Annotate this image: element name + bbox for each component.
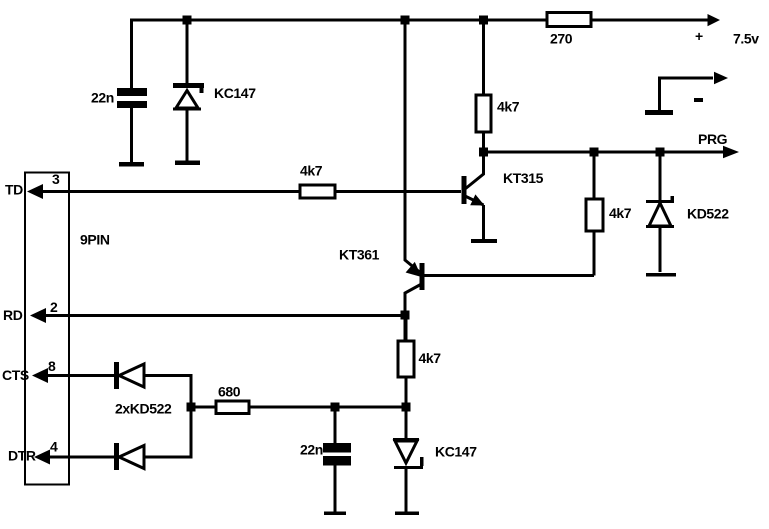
wire: KT361 base line to 4k7 bbox=[424, 274, 594, 277]
svg-text:CTS: CTS bbox=[2, 367, 29, 383]
svg-text:270: 270 bbox=[550, 31, 573, 47]
capacitor C top-left 22n : plates bbox=[91, 88, 147, 108]
junction: top rail / KT361 emitter line bbox=[401, 16, 410, 25]
svg-text:KT315: KT315 bbox=[503, 170, 544, 186]
wire: vertical to 4k7 pulldown bbox=[405, 315, 408, 341]
svg-text:22n: 22n bbox=[300, 442, 323, 458]
wire: CTS line to diode bbox=[44, 374, 114, 377]
wire: vertical from rail to 4k7 R-collector bbox=[482, 20, 485, 95]
wire: TD line right segment bbox=[335, 190, 461, 193]
svg-text:9PIN: 9PIN bbox=[80, 232, 110, 248]
wire: KC147 bottom lead bbox=[405, 469, 408, 512]
svg-text:4: 4 bbox=[50, 439, 58, 455]
junction: 680 line / 22n bottom bbox=[331, 403, 340, 412]
svg-text:4k7: 4k7 bbox=[609, 205, 632, 221]
svg-text:KC147: KC147 bbox=[214, 85, 256, 101]
zener diode KC147 bottom bbox=[393, 438, 477, 469]
ground: KD522 ground bar bbox=[646, 273, 676, 277]
wire: top supply rail right segment to +7.5v bbox=[591, 19, 710, 22]
wire: 4k7 base-resistor top lead bbox=[593, 152, 596, 199]
svg-text:DTR: DTR bbox=[8, 448, 36, 464]
junction: PRG rail / 4k7 base resistor bbox=[590, 148, 599, 157]
diode KD522 on CTS (left pointing) bbox=[114, 362, 172, 417]
pin 4 DTR arrow bbox=[8, 439, 58, 465]
svg-text:4k7: 4k7 bbox=[497, 99, 520, 115]
wire: 22n bottom lead bbox=[130, 108, 133, 162]
svg-text:KC147: KC147 bbox=[435, 444, 477, 460]
zener diode KC147 top-left bbox=[173, 83, 256, 111]
wire: CTS diode to corner and down bbox=[144, 376, 191, 408]
node PRG output arrow bbox=[698, 131, 739, 158]
junction: CTS/DTR vertical / 680 bbox=[187, 403, 196, 412]
ground: 22n top-left ground bar bbox=[119, 162, 144, 167]
wire: PRG rail bbox=[484, 151, 724, 154]
pin 8 CTS arrow bbox=[2, 358, 56, 383]
svg-text:8: 8 bbox=[48, 358, 56, 374]
wire: 4k7 base-resistor bottom lead bbox=[593, 231, 596, 276]
diode KD522 bbox=[646, 196, 729, 228]
svg-text:PRG: PRG bbox=[698, 131, 728, 147]
wire: KT361 emitter vertical from top rail bbox=[405, 20, 420, 272]
resistor 4k7 (TD series, horizontal) bbox=[300, 163, 335, 199]
ground: KT315 emitter ground bar bbox=[471, 239, 497, 243]
capacitor C top-left 22n : top lead bbox=[130, 20, 133, 88]
wire: RD line from connector to KT361 collector bbox=[39, 314, 405, 317]
resistor 680 (horizontal) bbox=[216, 384, 249, 414]
capacitor 22n bottom : plates bbox=[300, 442, 351, 466]
connector 9PIN box bbox=[25, 173, 110, 485]
ground: 22n bottom ground bar bbox=[324, 512, 346, 516]
svg-text:2xKD522: 2xKD522 bbox=[115, 401, 172, 417]
wire: DTR diode to corner and up bbox=[144, 376, 191, 458]
junction: PRG rail / KT315 collector bbox=[479, 148, 488, 157]
resistor 4k7 (collector load, vertical) bbox=[476, 95, 520, 132]
svg-text:680: 680 bbox=[218, 384, 241, 400]
wire: 4k7 bottom lead to PRG rail bbox=[482, 132, 485, 152]
junction: top rail / KC147 bbox=[183, 16, 192, 25]
wire: DTR line to diode bbox=[46, 456, 114, 459]
svg-text:7.5v: 7.5v bbox=[733, 31, 759, 47]
resistor 4k7 (KT361 base, vertical) bbox=[586, 199, 632, 231]
ground: KC147 bottom ground bar bbox=[395, 512, 419, 516]
wire: KC147 bottom lead bbox=[186, 110, 189, 161]
svg-text:4k7: 4k7 bbox=[300, 163, 323, 179]
wire: KC147 top lead bbox=[186, 20, 189, 83]
resistor 4k7 (pulldown, vertical) bbox=[398, 341, 441, 377]
ground: KC147 top-left ground bar bbox=[175, 161, 200, 166]
pin 2 RD arrow bbox=[3, 299, 58, 323]
svg-text:RD: RD bbox=[3, 307, 23, 323]
svg-text:+: + bbox=[695, 28, 703, 44]
svg-text:TD: TD bbox=[5, 182, 23, 198]
svg-text:22n: 22n bbox=[91, 90, 114, 106]
node minus supply terminal bbox=[645, 72, 728, 115]
wire: KD522 top lead bbox=[659, 152, 662, 200]
svg-text:KD522: KD522 bbox=[687, 206, 729, 222]
junction: top rail / 4k7 collector resistor bbox=[479, 16, 488, 25]
transistor KT315 (NPN) bbox=[462, 152, 544, 239]
wire: top supply rail left segment bbox=[130, 19, 547, 22]
pin 3 TD arrow bbox=[5, 171, 60, 199]
junction: 680 line / 4k7 / KC147 bottom bbox=[402, 403, 411, 412]
diode KD522 on DTR (left pointing) bbox=[114, 443, 144, 470]
svg-text:3: 3 bbox=[52, 171, 60, 187]
wire: 4k7 pulldown bottom lead bbox=[405, 377, 408, 440]
resistor 270 bbox=[547, 13, 591, 47]
svg-text:4k7: 4k7 bbox=[419, 350, 442, 366]
junction: PRG rail / KD522 bbox=[656, 148, 665, 157]
transistor KT361 (PNP) bbox=[339, 247, 425, 342]
capacitor 22n bottom : top lead bbox=[334, 407, 337, 443]
svg-text:KT361: KT361 bbox=[339, 247, 380, 263]
node +7.5v supply arrow bbox=[695, 14, 759, 47]
wire: junction to 680 bbox=[191, 406, 216, 409]
wire: 680 to 4k7 node bbox=[249, 406, 406, 409]
wire: 22n bottom lead bbox=[334, 466, 337, 513]
junction: KT361 collector / RD line bbox=[401, 311, 410, 320]
svg-text:2: 2 bbox=[50, 299, 58, 315]
wire: KD522 bottom lead bbox=[659, 228, 662, 272]
wire: TD line from connector to KT315 base bbox=[36, 190, 300, 193]
